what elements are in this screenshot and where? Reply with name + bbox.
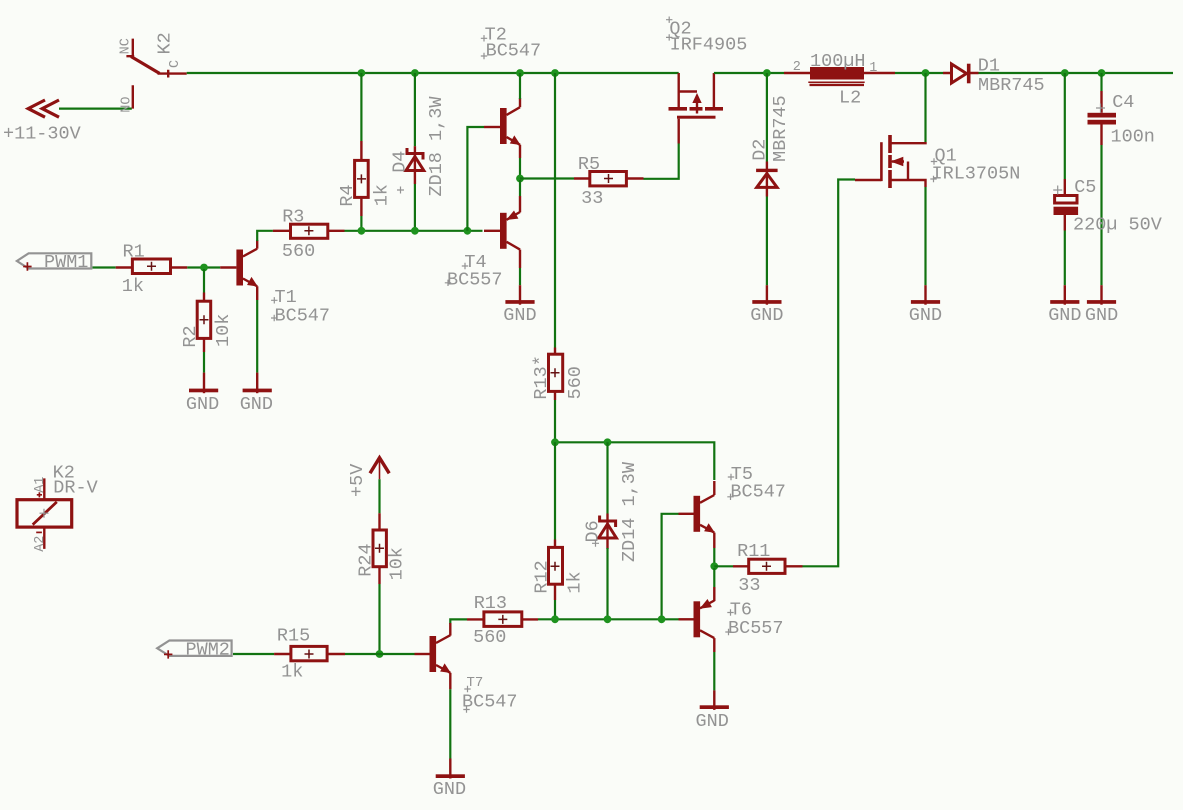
svg-text:GND: GND bbox=[1048, 305, 1081, 326]
resistor R13b 560 bbox=[531, 348, 586, 401]
svg-text:R5: R5 bbox=[578, 154, 600, 175]
wire R15 to T7 base bbox=[345, 653, 415, 655]
svg-text:GND: GND bbox=[433, 779, 466, 800]
resistor R2 bbox=[180, 293, 234, 353]
svg-text:R13*: R13* bbox=[531, 355, 552, 399]
svg-text:33: 33 bbox=[738, 575, 760, 596]
ground under D2 bbox=[750, 285, 783, 326]
wire R4 to base node bbox=[360, 216, 362, 231]
svg-text:D4: D4 bbox=[390, 151, 411, 173]
wire +11-30V to NO bbox=[59, 107, 132, 109]
node bottom D6 bbox=[604, 615, 612, 623]
wire mid node to D6 bbox=[606, 442, 608, 513]
svg-text:NO: NO bbox=[120, 96, 135, 112]
wire mid node to R12 bbox=[554, 442, 556, 539]
svg-text:33: 33 bbox=[581, 188, 603, 209]
node rail R13b bbox=[551, 69, 559, 77]
wire D1 to output rail bbox=[979, 72, 1174, 74]
wire R11 node to T6 emitter bbox=[713, 568, 715, 587]
node rail T2 collector bbox=[516, 69, 524, 77]
capacitor C5 220u bbox=[1053, 177, 1162, 236]
svg-text:1k: 1k bbox=[122, 276, 144, 297]
svg-text:R12: R12 bbox=[532, 560, 553, 593]
svg-text:R15: R15 bbox=[277, 625, 310, 646]
svg-text:BC547: BC547 bbox=[730, 481, 786, 502]
wire rail to R4 bbox=[360, 73, 362, 141]
node bottom R12 bbox=[551, 615, 559, 623]
resistor R5 bbox=[574, 154, 644, 209]
svg-text:R13: R13 bbox=[474, 593, 507, 614]
svg-text:R4: R4 bbox=[337, 184, 358, 206]
svg-text:NC: NC bbox=[119, 38, 134, 54]
node PWM2 T7 base bbox=[376, 650, 384, 658]
svg-text:BC557: BC557 bbox=[728, 618, 784, 639]
ground under T4 bbox=[503, 285, 536, 326]
zener diode D6 ZD14 bbox=[582, 461, 640, 562]
svg-text:100n: 100n bbox=[1111, 127, 1155, 148]
node rail C5 bbox=[1061, 69, 1069, 77]
wire rail to D2 bbox=[766, 73, 768, 162]
wire T5 base from bottom node branch bbox=[662, 514, 679, 620]
svg-text:IRF4905: IRF4905 bbox=[670, 35, 748, 56]
svg-text:GND: GND bbox=[1085, 305, 1118, 326]
node emitters R11 bbox=[710, 562, 718, 570]
wire R2 to GND bbox=[203, 352, 205, 373]
wire R13 elbow to T7 collector bbox=[450, 619, 467, 624]
wire rail to C4 bbox=[1100, 73, 1102, 91]
wire R5 node to T4 emitter bbox=[519, 180, 521, 196]
wire R24 to PWM2 node bbox=[378, 584, 380, 654]
resistor R13 560 bbox=[467, 593, 538, 648]
wire PWM1 to R1 bbox=[93, 266, 116, 268]
transistor T6 BC557 bbox=[679, 599, 784, 652]
svg-text:560: 560 bbox=[282, 241, 315, 262]
svg-text:PWM1: PWM1 bbox=[44, 252, 88, 273]
inductor L2 100uH bbox=[784, 51, 895, 109]
ground under C5 bbox=[1048, 285, 1081, 326]
resistor R11 33 bbox=[733, 541, 803, 596]
transistor T4 BC557 bbox=[445, 211, 520, 291]
resistor R24 10k bbox=[355, 513, 407, 584]
svg-text:BC557: BC557 bbox=[447, 270, 503, 291]
node base T2 branch bbox=[464, 227, 472, 235]
svg-text:L2: L2 bbox=[839, 88, 861, 109]
svg-text:GND: GND bbox=[750, 305, 783, 326]
svg-text:DR-V: DR-V bbox=[53, 478, 97, 499]
wire +5V to R24 bbox=[378, 479, 380, 513]
node rail D2 bbox=[763, 69, 771, 77]
node rail D4 bbox=[411, 69, 419, 77]
flag PWM2 bbox=[157, 640, 231, 661]
transistor T2 BC547 bbox=[481, 24, 541, 145]
wire R12 to bottom node bbox=[554, 600, 556, 619]
svg-text:+11-30V: +11-30V bbox=[3, 124, 81, 145]
node T1 base / R2 bbox=[200, 264, 208, 272]
ground under R2 bbox=[186, 373, 219, 416]
wire R11 to Q1 gate bbox=[803, 180, 856, 567]
transistor Q1 IRL3705N bbox=[855, 135, 1020, 188]
wire mid node across to T5 collector bbox=[555, 442, 714, 480]
node mid D6 bbox=[604, 438, 612, 446]
flag PWM1 bbox=[17, 252, 91, 273]
svg-text:PWM2: PWM2 bbox=[186, 640, 230, 661]
svg-text:MBR745: MBR745 bbox=[978, 75, 1045, 96]
node rail R4 bbox=[358, 69, 366, 77]
svg-text:C4: C4 bbox=[1112, 92, 1134, 113]
svg-text:A1: A1 bbox=[33, 477, 48, 493]
wire node to R2 bbox=[203, 269, 205, 293]
diode D2 MBR745 bbox=[750, 95, 792, 196]
wire T2 emitter to R5 node bbox=[519, 145, 521, 158]
svg-text:R2: R2 bbox=[180, 325, 201, 347]
resistor R1 bbox=[116, 242, 188, 298]
svg-text:BC547: BC547 bbox=[486, 41, 542, 62]
supply arrow +11-30V bbox=[3, 100, 81, 145]
wire top rail left segment bbox=[187, 72, 679, 74]
resistor R3 bbox=[273, 206, 345, 261]
svg-text:220µ 50V: 220µ 50V bbox=[1073, 215, 1162, 236]
svg-text:2: 2 bbox=[793, 60, 801, 75]
wire bottom node line bbox=[538, 618, 679, 620]
svg-text:GND: GND bbox=[909, 305, 942, 326]
wire T1 collector to R3 bbox=[257, 231, 273, 241]
svg-text:10k: 10k bbox=[387, 547, 408, 580]
zener diode D4 ZD18 bbox=[390, 96, 448, 197]
svg-text:R24: R24 bbox=[355, 543, 376, 576]
supply arrow +5V bbox=[347, 458, 389, 497]
svg-text:10k: 10k bbox=[213, 314, 234, 347]
wire R1 to T1 base bbox=[187, 266, 220, 268]
wire top rail right segment bbox=[714, 72, 784, 74]
svg-text:1: 1 bbox=[869, 61, 877, 76]
svg-text:1k: 1k bbox=[371, 184, 392, 206]
wire D4 to base node bbox=[414, 184, 416, 231]
wire T4 collector to GND bbox=[519, 268, 521, 285]
node base D4 bbox=[411, 227, 419, 235]
svg-text:+5V: +5V bbox=[347, 464, 368, 497]
relay coil K2 DR-V bbox=[17, 463, 98, 552]
ground under T1 bbox=[240, 373, 273, 416]
svg-text:R3: R3 bbox=[282, 206, 304, 227]
svg-text:BC547: BC547 bbox=[275, 305, 331, 326]
wire D6 to bottom node bbox=[606, 548, 608, 619]
node mid R12 bbox=[551, 438, 559, 446]
wire R13b to mid node bbox=[554, 400, 556, 442]
transistor T1 BC547 bbox=[220, 240, 330, 326]
wire rail to T2 collector bbox=[519, 73, 521, 99]
resistor R15 1k bbox=[274, 625, 345, 682]
resistor R12 1k bbox=[532, 540, 586, 601]
svg-text:R11: R11 bbox=[737, 541, 770, 562]
diode D1 MBR745 bbox=[943, 55, 1045, 96]
ground under C4 bbox=[1085, 285, 1118, 326]
svg-text:GND: GND bbox=[696, 711, 729, 732]
svg-text:1k: 1k bbox=[564, 571, 585, 593]
switch K2 bbox=[119, 32, 187, 112]
svg-text:K2: K2 bbox=[154, 32, 175, 54]
wire R3 to base node bbox=[345, 230, 483, 232]
transistor T5 BC547 bbox=[679, 464, 786, 533]
svg-text:1k: 1k bbox=[281, 662, 303, 683]
wire T5 emitter to R11 node bbox=[713, 533, 715, 548]
svg-text:560: 560 bbox=[473, 627, 506, 648]
transistor T7 BC547 bbox=[415, 623, 518, 713]
svg-text:IRL3705N: IRL3705N bbox=[932, 164, 1021, 185]
svg-text:MBR745: MBR745 bbox=[770, 95, 791, 162]
svg-text:D2: D2 bbox=[750, 139, 771, 161]
wire node to R5 bbox=[520, 177, 574, 179]
svg-text:T7: T7 bbox=[467, 675, 484, 691]
wire R5 to Q2 gate bbox=[644, 144, 679, 179]
svg-text:GND: GND bbox=[503, 305, 536, 326]
svg-text:D6: D6 bbox=[582, 520, 603, 542]
node emitters R5 bbox=[516, 175, 524, 183]
node rail Q1 drain bbox=[922, 69, 930, 77]
svg-text:BC547: BC547 bbox=[462, 691, 518, 712]
wire C5 to GND bbox=[1064, 231, 1066, 286]
wire rail to C5 bbox=[1064, 73, 1066, 179]
wire rail down to Q1 drain bbox=[924, 73, 926, 142]
svg-text:A2: A2 bbox=[33, 536, 48, 552]
ground under Q1 bbox=[909, 285, 942, 326]
svg-text:560: 560 bbox=[565, 366, 586, 399]
svg-text:R1: R1 bbox=[123, 242, 145, 263]
node rail C4 bbox=[1098, 69, 1106, 77]
node bottom T5 branch bbox=[658, 615, 666, 623]
svg-text:100µH: 100µH bbox=[810, 51, 866, 72]
resistor R4 bbox=[337, 141, 392, 216]
svg-text:GND: GND bbox=[240, 394, 273, 415]
transistor Q2 IRF4905 bbox=[666, 17, 747, 144]
wire base node up to T2 base bbox=[467, 127, 484, 231]
svg-text:ZD14 1,3W: ZD14 1,3W bbox=[619, 461, 640, 562]
svg-text:C: C bbox=[168, 60, 183, 68]
wire T1 emitter to GND bbox=[256, 286, 258, 300]
wire T6 collector to GND bbox=[713, 652, 715, 690]
capacitor C4 100n bbox=[1088, 91, 1155, 148]
ground under T6 bbox=[696, 690, 729, 732]
svg-text:ZD18 1,3W: ZD18 1,3W bbox=[426, 96, 447, 197]
svg-text:GND: GND bbox=[186, 394, 219, 415]
wire PWM2 to R15 bbox=[233, 653, 274, 655]
wire D2 to GND bbox=[766, 197, 768, 286]
wire Q1 source to GND bbox=[924, 187, 926, 285]
node base R4 bbox=[358, 227, 366, 235]
wire node to R11 bbox=[714, 565, 733, 567]
ground under T7 bbox=[433, 759, 466, 800]
svg-text:C5: C5 bbox=[1074, 177, 1096, 198]
wire rail to D4 bbox=[414, 73, 416, 146]
wire T7 emitter to GND bbox=[449, 673, 451, 690]
wire rail down to R13b (crosses R5 wire) bbox=[554, 73, 556, 348]
wire C4 to GND bbox=[1100, 145, 1102, 285]
wire L2 to D1 bbox=[895, 72, 943, 74]
